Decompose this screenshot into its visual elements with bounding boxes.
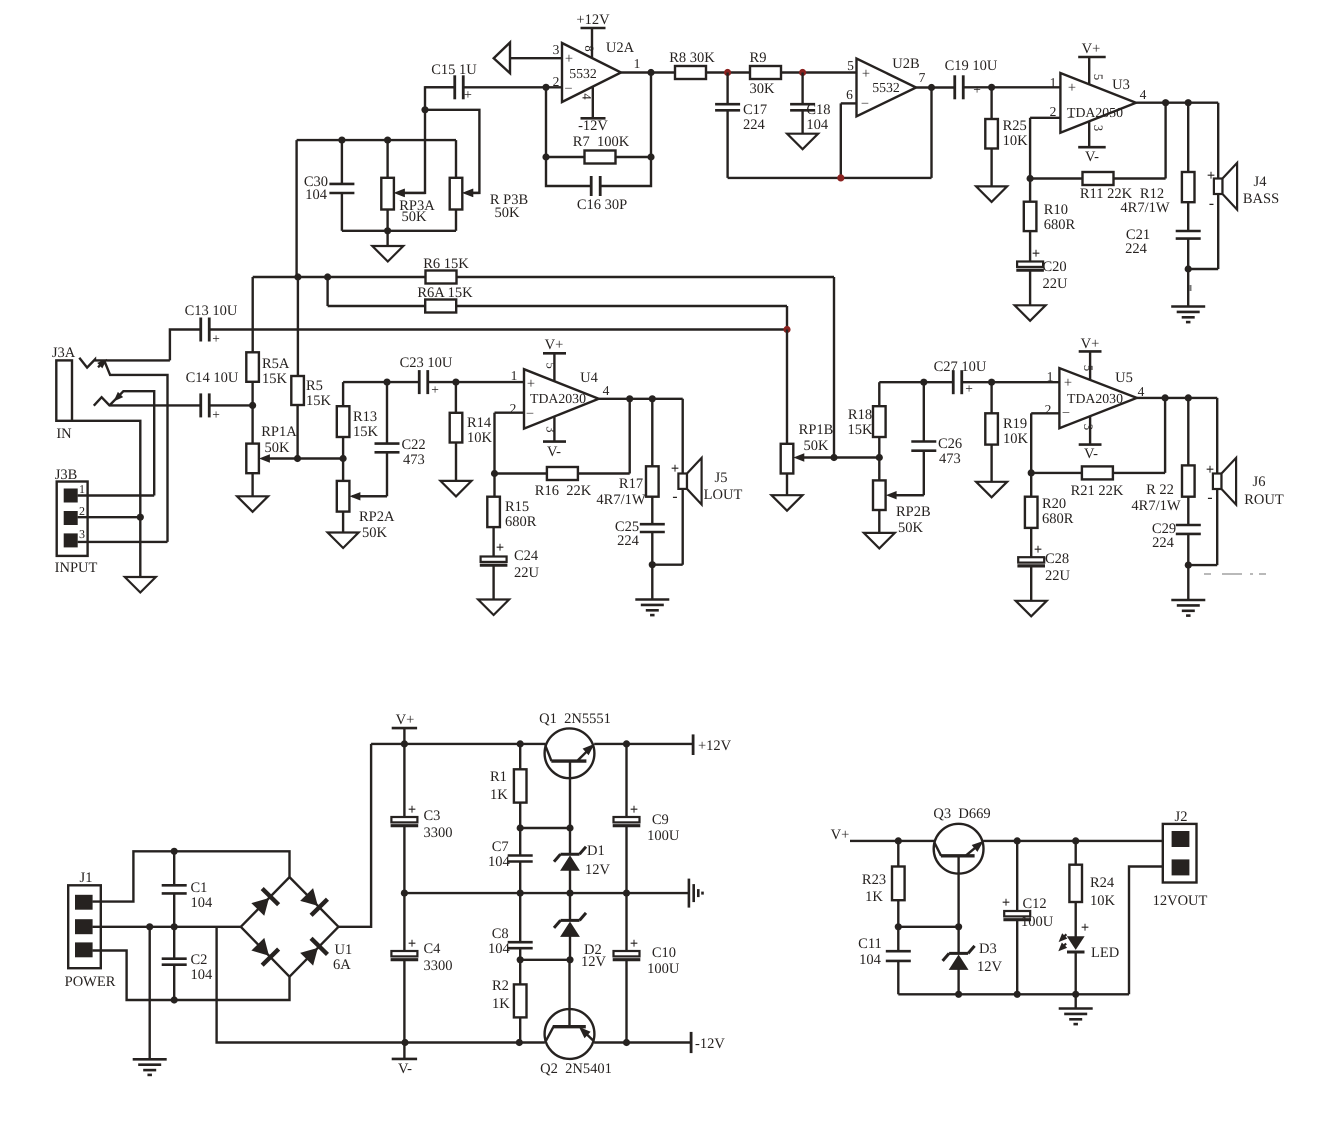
ground under RP3A xyxy=(372,231,403,262)
svg-text:R10: R10 xyxy=(1044,202,1068,218)
wiper rail to R18 junction xyxy=(830,454,883,461)
wire tip to C13 xyxy=(170,330,201,361)
resistor R11 22K xyxy=(1080,172,1133,202)
svg-text:-12V: -12V xyxy=(695,1036,725,1052)
U5 V- supply stub xyxy=(1079,416,1102,462)
svg-text:U4: U4 xyxy=(580,370,598,386)
node C1 top junction xyxy=(171,848,178,855)
svg-text:R14: R14 xyxy=(467,415,492,431)
wire J6 to return xyxy=(1188,489,1217,565)
svg-text:-12V: -12V xyxy=(578,118,608,134)
svg-text:R6A 15K: R6A 15K xyxy=(417,285,473,301)
transistor Q3 D669 xyxy=(933,806,990,874)
capacitor C2 104 xyxy=(162,927,213,1000)
capacitor C19 10U xyxy=(945,58,998,99)
jack J3A sleeve wire xyxy=(72,421,140,577)
svg-text:LOUT: LOUT xyxy=(704,487,743,503)
svg-text:100U: 100U xyxy=(647,828,680,844)
svg-text:30K: 30K xyxy=(750,81,776,97)
ground under C28 xyxy=(1016,601,1047,617)
svg-text:+: + xyxy=(1068,80,1076,96)
node R2/D2 rail xyxy=(517,956,574,963)
svg-text:+: + xyxy=(212,331,220,346)
wire U5 pin2 feedback xyxy=(1031,413,1059,473)
connector J2 xyxy=(1153,809,1208,909)
svg-text:C15 1U: C15 1U xyxy=(431,62,477,78)
resistor R21 22K xyxy=(1071,466,1124,499)
wire J4 to return xyxy=(1188,194,1218,269)
node R5A/C14 junction xyxy=(249,402,256,409)
U3 V- supply stub xyxy=(1078,121,1106,165)
svg-text:C10: C10 xyxy=(652,945,676,961)
svg-text:R20: R20 xyxy=(1042,496,1066,512)
svg-text:C14 10U: C14 10U xyxy=(186,370,239,386)
svg-text:50K: 50K xyxy=(495,205,521,221)
resistor R24 10K xyxy=(1069,841,1115,937)
resistor R5 15K xyxy=(291,277,331,459)
svg-text:TDA2030: TDA2030 xyxy=(1067,391,1123,406)
capacitor C24 22U xyxy=(480,540,540,600)
wire R23 bottom to Q3 base xyxy=(895,923,963,930)
svg-text:J4: J4 xyxy=(1254,174,1268,190)
svg-text:R16 22K: R16 22K xyxy=(535,483,592,499)
wire bridge right to V+ rail xyxy=(339,744,372,927)
svg-text:+: + xyxy=(630,936,638,952)
svg-text:104: 104 xyxy=(488,941,511,957)
svg-text:R6 15K: R6 15K xyxy=(423,256,469,272)
svg-text:R8 30K: R8 30K xyxy=(669,50,715,66)
svg-text:U2A: U2A xyxy=(606,40,635,56)
svg-text:R25: R25 xyxy=(1003,118,1027,134)
svg-text:BASS: BASS xyxy=(1243,191,1279,207)
node C1/C2 junction xyxy=(171,923,178,930)
U3 pin labels xyxy=(1050,74,1147,131)
node sleeve/pin2 junction xyxy=(137,514,144,521)
svg-text:104: 104 xyxy=(806,117,829,133)
wire R6A down to C13 line xyxy=(786,306,788,330)
svg-text:D3: D3 xyxy=(979,941,997,957)
svg-text:−: − xyxy=(526,406,534,422)
svg-text:+: + xyxy=(1034,542,1042,558)
wire J1 pin2 rail xyxy=(93,926,241,928)
svg-text:8: 8 xyxy=(582,45,596,51)
wire J4 bottom to ground xyxy=(1187,269,1189,307)
svg-text:−: − xyxy=(564,81,572,97)
jack J3A tip contact xyxy=(79,358,170,368)
svg-text:J6: J6 xyxy=(1253,474,1266,490)
potentiometer RP2A 50K xyxy=(337,481,395,541)
svg-text:-: - xyxy=(1209,195,1214,212)
svg-text:V-: V- xyxy=(398,1061,412,1077)
transistor Q1 2N5551 xyxy=(539,711,611,778)
capacitor C17 224 xyxy=(715,73,767,178)
capacitor C14 to R5A wire xyxy=(210,404,253,406)
svg-text:RP2A: RP2A xyxy=(359,509,395,525)
svg-text:C2: C2 xyxy=(190,952,207,968)
svg-text:−: − xyxy=(1062,405,1070,421)
svg-text:V+: V+ xyxy=(396,712,415,728)
svg-text:50K: 50K xyxy=(804,438,830,454)
svg-text:3: 3 xyxy=(553,42,560,57)
svg-text:22U: 22U xyxy=(514,565,540,581)
svg-text:C1: C1 xyxy=(190,880,207,896)
svg-text:680R: 680R xyxy=(1044,217,1076,233)
svg-text:+12V: +12V xyxy=(576,12,610,28)
resistor R20 680R xyxy=(1025,473,1074,558)
wire J3B pin3 xyxy=(78,541,168,543)
wire U3 output to speaker J4 xyxy=(1217,103,1219,179)
ground under RP1A xyxy=(237,496,268,512)
ground under R19 xyxy=(976,482,1007,498)
svg-text:R9: R9 xyxy=(750,50,767,66)
svg-text:+: + xyxy=(630,802,638,818)
regulator bottom rail wire xyxy=(898,991,1129,998)
svg-text:C27 10U: C27 10U xyxy=(934,359,987,375)
capacitor C7 104 xyxy=(488,828,533,893)
jack J3A body xyxy=(52,345,76,442)
resistor R19 10K xyxy=(985,382,1028,482)
capacitor C15 1U xyxy=(431,62,477,103)
svg-text:10K: 10K xyxy=(1090,893,1116,909)
+12V terminal xyxy=(693,734,732,755)
svg-text:5: 5 xyxy=(1081,365,1095,371)
svg-text:5: 5 xyxy=(847,58,854,73)
jack J3A ring contact xyxy=(94,397,201,406)
capacitor C10 100U xyxy=(613,893,680,1042)
svg-text:-: - xyxy=(672,488,677,505)
svg-text:5532: 5532 xyxy=(872,80,900,95)
wire R9 to U2B pin5 xyxy=(781,71,857,73)
capacitor C12 100U xyxy=(1002,841,1054,994)
resistor R8 30K xyxy=(669,50,715,79)
svg-text:Q2 2N5401: Q2 2N5401 xyxy=(540,1061,612,1077)
wire U3 feedback to R11 xyxy=(1027,103,1166,182)
node J5 return junction xyxy=(649,561,656,568)
U3 V+ supply stub xyxy=(1078,41,1106,84)
ground under C21 (earth) xyxy=(1171,307,1205,323)
U4 pin labels xyxy=(510,362,610,432)
svg-text:R1: R1 xyxy=(490,769,507,785)
svg-text:+: + xyxy=(496,540,504,556)
faint scan artifact dashes xyxy=(1204,573,1266,575)
capacitor C18 104 xyxy=(790,73,830,134)
ground under C20 xyxy=(1015,305,1046,321)
svg-text:10K: 10K xyxy=(467,430,493,446)
svg-text:C18: C18 xyxy=(806,102,830,118)
resistor R14 10K xyxy=(450,382,493,481)
capacitor C11 104 xyxy=(858,927,911,995)
capacitor C9 100U xyxy=(613,744,680,893)
capacitor C21 224 xyxy=(1125,227,1201,269)
svg-text:J3B: J3B xyxy=(55,467,78,483)
svg-text:J2: J2 xyxy=(1175,809,1188,825)
svg-text:104: 104 xyxy=(488,854,511,870)
resistor R15 680R xyxy=(487,474,536,558)
svg-text:C16 30P: C16 30P xyxy=(577,197,627,213)
resistor R16 22K xyxy=(535,467,592,499)
svg-text:R17: R17 xyxy=(619,476,643,492)
svg-text:10K: 10K xyxy=(1003,133,1029,149)
jack J3A tip switch contact xyxy=(98,360,168,542)
svg-text:224: 224 xyxy=(743,117,766,133)
node R23 top junction xyxy=(895,837,902,844)
svg-text:RP2B: RP2B xyxy=(896,504,931,520)
op-amp U2B xyxy=(857,59,917,117)
svg-text:IN: IN xyxy=(56,426,72,442)
capacitor C25 224 xyxy=(615,519,665,565)
svg-text:C19 10U: C19 10U xyxy=(945,58,998,74)
svg-text:U2B: U2B xyxy=(892,56,919,72)
svg-text:2: 2 xyxy=(79,504,85,518)
op-amp U5 TDA2030 xyxy=(1059,368,1136,428)
earth ground under J1 xyxy=(133,1059,167,1075)
svg-text:C11: C11 xyxy=(858,936,882,952)
svg-text:473: 473 xyxy=(403,452,425,468)
node U2A pin2 junction xyxy=(542,84,549,91)
svg-text:R15: R15 xyxy=(505,499,529,515)
zener diode D2 12V xyxy=(554,893,607,970)
resistor R6A 15K with line xyxy=(328,277,787,313)
U2A +12V supply stub xyxy=(576,12,610,58)
tone top rail wire xyxy=(297,137,456,144)
svg-text:1: 1 xyxy=(79,482,85,496)
zener diode D1 12V xyxy=(554,828,611,893)
ground under RP2A xyxy=(328,533,359,549)
U4 V+ supply stub xyxy=(543,337,566,381)
svg-text:104: 104 xyxy=(305,187,328,203)
svg-text:C8: C8 xyxy=(492,926,509,942)
svg-text:U5: U5 xyxy=(1115,370,1133,386)
wire C27 to U5 pin1 xyxy=(962,379,1060,386)
svg-text:4R7/1W: 4R7/1W xyxy=(1120,200,1169,216)
resistor R5A 15K xyxy=(246,277,290,405)
wire U2B pin6 feedback xyxy=(841,103,857,177)
svg-text:1K: 1K xyxy=(490,787,508,803)
svg-text:Q3 D669: Q3 D669 xyxy=(933,806,990,822)
potentiometer RP3B 50K xyxy=(450,140,528,231)
svg-text:−: − xyxy=(861,96,869,112)
capacitor C20 22U xyxy=(1016,246,1068,305)
svg-text:V+: V+ xyxy=(1081,336,1100,352)
resistor R23 1K xyxy=(862,841,905,927)
svg-text:J3A: J3A xyxy=(52,345,76,361)
svg-text:473: 473 xyxy=(939,451,961,467)
ground under R14 xyxy=(441,481,472,497)
svg-text:6: 6 xyxy=(846,87,853,102)
svg-text:15K: 15K xyxy=(262,371,288,387)
wire Q2 base up to R2/D2 rail xyxy=(568,960,570,1027)
speaker J6 xyxy=(1206,458,1284,508)
svg-text:R 22: R 22 xyxy=(1146,482,1174,498)
svg-text:R21 22K: R21 22K xyxy=(1071,483,1124,499)
svg-text:1K: 1K xyxy=(865,889,883,905)
svg-text:+: + xyxy=(973,82,981,97)
wire U5 feedback to R21 xyxy=(1028,398,1166,477)
svg-text:1K: 1K xyxy=(492,996,510,1012)
svg-text:+: + xyxy=(1206,462,1214,478)
wire U4 output xyxy=(599,395,683,402)
wire R6 line down to RP1B xyxy=(833,277,835,458)
wire C23 to U4 pin1 xyxy=(428,379,524,386)
wire U2A output xyxy=(621,69,675,76)
ground under R25 xyxy=(976,186,1007,202)
node C13/RP1B junction xyxy=(783,326,790,333)
wire C13 line to RP1B xyxy=(210,328,787,330)
speaker J5 xyxy=(671,458,743,505)
svg-text:224: 224 xyxy=(617,533,640,549)
wire C29 to ground xyxy=(1187,565,1189,600)
svg-text:C7: C7 xyxy=(492,839,509,855)
svg-text:INPUT: INPUT xyxy=(55,560,98,576)
U5 V+ supply stub xyxy=(1079,336,1102,380)
svg-text:4R7/1W: 4R7/1W xyxy=(1131,498,1180,514)
svg-text:50K: 50K xyxy=(362,525,388,541)
node A (R8/R9/C17) xyxy=(724,69,731,76)
svg-text:50K: 50K xyxy=(265,440,291,456)
svg-text:+: + xyxy=(408,802,416,818)
capacitor C13 10U xyxy=(185,303,238,346)
capacitor C3 3300 xyxy=(391,744,453,893)
svg-text:104: 104 xyxy=(190,895,213,911)
jack J3A ring switch contact xyxy=(110,391,155,495)
svg-text:C13 10U: C13 10U xyxy=(185,303,238,319)
capacitor C27 10U xyxy=(934,359,987,396)
svg-text:RP1B: RP1B xyxy=(799,422,834,438)
ground under C25 (earth) xyxy=(635,600,669,616)
svg-text:RP1A: RP1A xyxy=(261,424,297,440)
wire C25 to ground xyxy=(651,565,653,600)
svg-text:7: 7 xyxy=(919,70,926,85)
wire U5 output to speaker J6 xyxy=(1216,398,1218,474)
potentiometer RP3A 50K xyxy=(381,140,435,231)
capacitor C30 104 xyxy=(304,140,355,231)
svg-text:POWER: POWER xyxy=(65,974,116,990)
svg-text:+: + xyxy=(212,407,220,422)
resistor R7 100K xyxy=(573,134,630,164)
capacitor C23 10U xyxy=(400,355,453,397)
U4 V- supply stub xyxy=(543,417,566,461)
svg-text:+: + xyxy=(408,936,416,952)
svg-text:12VOUT: 12VOUT xyxy=(1153,893,1208,909)
svg-text:22U: 22U xyxy=(1045,568,1071,584)
svg-text:4: 4 xyxy=(580,93,594,100)
ground under C18 xyxy=(787,134,818,150)
wire C15 to U2A pin2 xyxy=(425,86,562,88)
svg-text:3300: 3300 xyxy=(423,958,452,974)
svg-text:10K: 10K xyxy=(1003,431,1029,447)
svg-text:+: + xyxy=(862,66,870,82)
ground under C29 (earth) xyxy=(1171,600,1205,616)
U2A -12V supply stub xyxy=(578,88,608,135)
wire R8 to R9 xyxy=(706,71,750,73)
wire U3 output xyxy=(1136,99,1218,106)
wire Q1 base to R1/D1 rail xyxy=(569,761,571,828)
svg-text:2: 2 xyxy=(1045,402,1052,417)
wire U2B output to C19 xyxy=(916,84,955,91)
svg-text:6A: 6A xyxy=(333,957,351,973)
svg-text:5: 5 xyxy=(1091,74,1105,80)
svg-text:1: 1 xyxy=(1047,369,1054,384)
svg-text:-: - xyxy=(1207,489,1212,506)
svg-text:C22: C22 xyxy=(401,437,425,453)
capacitor C14 10U xyxy=(186,370,239,422)
svg-text:C4: C4 xyxy=(423,941,441,957)
resistor R6 15K with line xyxy=(253,256,834,284)
capacitor C29 224 xyxy=(1152,521,1201,565)
svg-text:15K: 15K xyxy=(848,422,874,438)
speaker J4 xyxy=(1207,163,1279,212)
svg-text:J1: J1 xyxy=(80,870,93,886)
ground under RP2B xyxy=(864,533,895,549)
svg-text:R5: R5 xyxy=(306,378,323,394)
J3B pin number labels xyxy=(79,482,85,541)
V+ rail wire xyxy=(371,740,693,747)
wire Q3 base down xyxy=(957,856,959,927)
wire J1 pin1 to bridge top xyxy=(93,851,290,901)
tone bottom rail wire xyxy=(342,227,456,234)
zener diode D3 12V xyxy=(943,927,1003,995)
svg-text:TDA2050: TDA2050 xyxy=(1067,105,1123,120)
wire J1 pin3 to bridge bottom xyxy=(93,951,290,1001)
svg-text:4: 4 xyxy=(603,383,610,398)
svg-text:U1: U1 xyxy=(334,942,352,958)
node tone wiper junction xyxy=(421,106,428,113)
svg-text:D1: D1 xyxy=(587,843,605,859)
svg-text:V+: V+ xyxy=(831,827,850,843)
wire U2A feedback loop xyxy=(542,73,654,161)
svg-text:R13: R13 xyxy=(353,409,377,425)
node R1/D1 rail xyxy=(517,824,574,831)
U2A pin labels xyxy=(553,40,641,100)
svg-text:V-: V- xyxy=(547,444,561,460)
node ground branch junction xyxy=(146,923,153,930)
svg-text:V+: V+ xyxy=(545,337,564,353)
svg-text:680R: 680R xyxy=(505,514,537,530)
svg-text:TDA2030: TDA2030 xyxy=(530,391,586,406)
connector J3B xyxy=(55,467,98,576)
svg-text:50K: 50K xyxy=(402,209,428,225)
svg-text:+: + xyxy=(464,88,472,103)
svg-text:100U: 100U xyxy=(647,961,680,977)
svg-text:3: 3 xyxy=(1081,424,1095,430)
capacitor C8 104 xyxy=(488,893,533,960)
wire V+ through Q3 to J2 xyxy=(983,837,1171,844)
svg-text:680R: 680R xyxy=(1042,511,1074,527)
capacitor C28 22U xyxy=(1017,542,1070,601)
svg-text:+: + xyxy=(1002,895,1010,911)
wire R13 line to C23 xyxy=(343,379,419,386)
svg-text:3: 3 xyxy=(79,527,85,541)
svg-text:1: 1 xyxy=(511,368,518,383)
wire U3 pin2 feedback xyxy=(1030,118,1060,179)
svg-text:+: + xyxy=(431,382,439,397)
svg-text:C23 10U: C23 10U xyxy=(400,355,453,371)
svg-text:12V: 12V xyxy=(977,959,1003,975)
bridge rectifier U1 6A xyxy=(241,877,352,977)
ground under jack xyxy=(125,577,156,593)
svg-text:V+: V+ xyxy=(1082,41,1101,57)
svg-text:224: 224 xyxy=(1125,241,1148,257)
resistor R25 10K xyxy=(985,87,1028,186)
resistor R22 4R7/1W xyxy=(1131,398,1194,525)
svg-text:LED: LED xyxy=(1091,945,1119,961)
op-amp U3 TDA2050 xyxy=(1060,73,1136,133)
wire R18 line to C27 xyxy=(879,379,953,386)
resistor R9 30K xyxy=(750,50,781,97)
capacitor C4 3300 xyxy=(391,893,453,1042)
svg-text:224: 224 xyxy=(1152,535,1175,551)
svg-text:C17: C17 xyxy=(743,102,767,118)
